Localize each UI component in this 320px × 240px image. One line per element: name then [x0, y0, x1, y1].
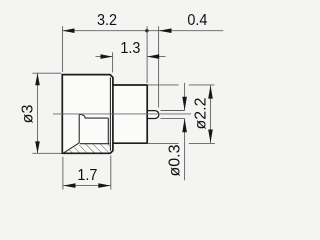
extension line left (x=62.5): [62, 26, 64, 72]
pin tick top: [161, 110, 185, 112]
cavity mouth chamfer diagonal: [64, 143, 80, 153]
svg-text:ø2.2: ø2.2: [192, 97, 209, 129]
pin tick bottom: [161, 117, 185, 119]
svg-text:ø0.3: ø0.3: [166, 144, 183, 176]
1.7 dimension line: [63, 185, 111, 187]
arrow dia0.3 top (down): [182, 97, 187, 111]
1.7 extension lines: [62, 157, 64, 190]
centerline: [53, 113, 191, 115]
cylinder outline: [113, 85, 147, 143]
arrow 1.3 right (outside, pointing left): [147, 54, 159, 59]
dia3 extension line top: [32, 72, 61, 74]
extension line x=147.1: [146, 26, 148, 83]
pin 0.3 dia fill: [147, 111, 159, 119]
dia2.2 extension bottom (broken): [147, 142, 178, 144]
dia3 extension line bottom: [32, 152, 61, 154]
arrow dia0.3 bottom (up): [182, 119, 187, 133]
dimension line 3.2/0.4 (horizontal y=30.7): [63, 30, 224, 32]
arrow 3.2 left: [63, 28, 75, 33]
cavity left vertical: [78, 114, 80, 142]
dia3 dimension vertical line x=37.5: [37, 73, 39, 153]
hatch top line (cavity bottom surface): [80, 143, 109, 145]
svg-text:1.7: 1.7: [77, 166, 97, 184]
dia0.3 dim line top segment: [184, 83, 186, 111]
dia2.2 dimension line x=210.5: [210, 85, 212, 143]
extension line x=112.6 (1.3 left): [112, 52, 114, 72]
dia0.3 dim line bottom segment: [184, 119, 186, 181]
body outline (3.0 dia block): [62, 75, 113, 154]
dot terminator 3.2 right: [145, 29, 148, 32]
inner right vertical (chamfer ring boundary): [109, 77, 111, 150]
svg-text:0.4: 0.4: [187, 11, 208, 29]
cavity top contour with fillet: [79, 114, 108, 118]
body outline stroke: [62, 75, 113, 154]
svg-text:ø3: ø3: [19, 105, 36, 124]
arrow 0.4 (outside, pointing left): [159, 28, 172, 33]
dia2.2 extension top (broken around dia0.3 line): [147, 84, 178, 86]
arrow dia3 bottom (pointing down): [35, 141, 40, 153]
dimension 1.3 leader right: [147, 56, 165, 58]
cavity right vertical: [107, 118, 109, 144]
arrow 1.7 right: [98, 183, 110, 188]
arrow dia2.2 bottom (down): [208, 130, 213, 143]
svg-text:1.3: 1.3: [120, 39, 140, 57]
cylinder 2.2 dia fill: [113, 85, 147, 143]
pin outline: [147, 111, 159, 119]
arrow 1.7 left: [63, 183, 75, 188]
extension line x=158.6 (pin tip): [158, 26, 160, 107]
hatch strip (sectioned bottom wall): [65, 144, 110, 153]
arrow dia2.2 top (up): [208, 85, 213, 98]
arrow 1.3 left (outside, pointing right): [101, 54, 113, 59]
svg-text:3.2: 3.2: [97, 11, 117, 29]
dimension 1.3 (y=56.6) leader left: [96, 56, 113, 58]
arrow dia3 top (pointing up): [35, 73, 40, 85]
